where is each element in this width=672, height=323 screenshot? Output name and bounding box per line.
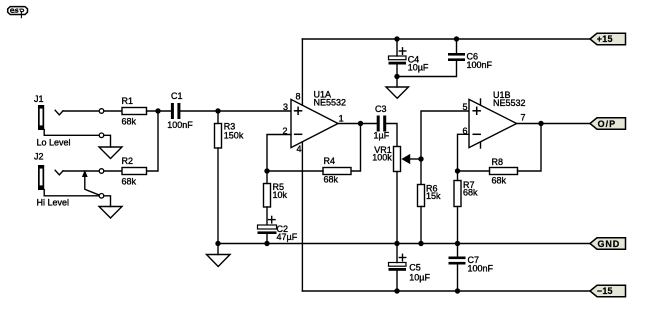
resistor R7 [454,181,461,207]
wire U1B pin6 feedback [458,134,470,171]
node C6/+15 rail junction [454,36,459,41]
resistor R6 [418,185,425,207]
wire C6 bottom to junction [397,61,457,77]
capacitor C2 plus sign [269,216,276,223]
resistor R8 [490,168,518,175]
svg-text:R1: R1 [122,96,134,106]
potentiometer VR1 [394,147,401,172]
capacitor C4 plus sign [399,48,406,55]
wire R4 to feedback junction [267,170,323,172]
svg-text:100nF: 100nF [467,60,493,70]
wire pin circle to R1 [104,110,122,112]
wire feedback junction to R8 [458,170,490,172]
node C7/-15 rail junction [455,288,460,293]
ground (supply decoupling) [386,87,409,98]
resistor R1 [122,108,147,115]
svg-text:C5: C5 [409,263,421,273]
node U1B feedback junction [455,168,460,173]
wire C7 to -15 rail [457,265,459,292]
wire R1 to C1 [147,110,172,112]
op-amp U1B [469,99,517,147]
resistor R2 [122,168,147,175]
jack J2 [38,165,44,190]
node U1A feedback junction [264,168,269,173]
capacitor C4 [389,56,407,65]
wire R5 to C2 [266,207,268,225]
svg-text:−15: −15 [597,286,613,296]
wire U1A output [338,123,377,125]
wire VR1 to GND rail [396,172,398,244]
wire GND rail to C7 [457,244,459,257]
wire J2 tip to pin circle [63,170,99,172]
svg-text:R8: R8 [492,157,504,167]
svg-text:7: 7 [521,112,526,122]
svg-text:47µF: 47µF [277,232,298,242]
svg-text:J1: J1 [34,94,44,104]
svg-text:Hi Level: Hi Level [37,197,70,207]
wire junction down to R3 [217,111,219,124]
J2 switch contact arrow [83,171,100,195]
capacitor C2 [258,225,277,234]
node C2/GND rail junction [264,241,269,246]
wire U1A pin8 to +15 rail [301,39,303,105]
wire sleeve circle to ground [104,135,111,147]
wire C1 to U1A pin3 [180,110,291,112]
wire feedback junction to R7 [457,171,459,181]
wire GND rail to C5 [396,244,398,263]
svg-text:68k: 68k [122,177,137,187]
terminal GND [590,238,626,249]
node C4/+15 rail junction [394,36,399,41]
wire U1A pin2 feedback [267,135,291,172]
capacitor C1 [171,103,181,119]
wire J1 tip to pin circle [63,110,99,112]
wire C5 to -15 rail [396,271,398,291]
J1 sleeve wire [44,130,99,136]
wire wiper junction to R6 [420,159,422,185]
ground (J1) [99,147,122,159]
U1B pin8 stub [480,99,482,105]
svg-text:C3: C3 [375,104,387,114]
node R3/GND rail junction [215,241,220,246]
capacitor C3 [377,116,387,132]
terminal +15 [590,33,626,44]
wire +15 rail to C6 [456,39,458,53]
wire R3 junction to ground symbol [217,244,219,255]
svg-text:150k: 150k [224,131,244,141]
wire feedback junction to R5 [266,171,268,184]
wire C2 to GND rail [266,234,268,244]
ground (GND rail) [207,255,231,267]
svg-text:100nF: 100nF [167,120,193,130]
J1 sleeve pin circle [99,133,104,138]
svg-text:NE5532: NE5532 [493,98,526,108]
node C5/-15 rail junction [394,288,399,293]
wire U1A pin4 to -15 rail [301,142,303,291]
svg-text:10µF: 10µF [408,62,429,72]
svg-text:1µF: 1µF [374,131,390,141]
U1B pin4 stub [480,142,482,148]
J2 tip contact [55,170,63,175]
J2 sleeve pin circle [99,194,104,199]
VR1 wiper arrow [402,155,421,164]
svg-text:68k: 68k [492,175,507,185]
svg-text:GND: GND [598,239,621,249]
terminal -15 [590,285,626,296]
wire C3 to VR1 [386,124,397,147]
op-amp U1A [291,99,338,147]
node C1/R3 junction [215,108,220,113]
svg-text:J2: J2 [34,152,44,162]
capacitor C7 [449,257,466,265]
J2 tip pin circle [99,169,104,174]
resistor R4 [323,168,351,175]
svg-text:O/P: O/P [598,119,617,129]
node C4/C6 ground junction [394,74,399,79]
wire junction down to R2 [147,111,159,171]
wire +15 rail [302,38,590,40]
U1A plus sign [295,107,302,114]
wire wiper junction to U1B pin5 [421,111,469,159]
ground (J2) [99,207,122,219]
capacitor C5 plus sign [399,254,406,260]
wire GND rail [218,243,590,245]
capacitor C5 [389,263,407,271]
wire U1B output [517,123,590,125]
node R1/C1/R2 junction [155,108,160,113]
wire R8 to output [518,124,542,172]
svg-text:8: 8 [296,91,301,101]
svg-text:10µF: 10µF [409,272,430,282]
svg-text:100nF: 100nF [468,264,494,274]
svg-text:R2: R2 [122,156,134,166]
wire R6 to GND rail [420,207,422,244]
svg-text:15k: 15k [426,191,441,201]
wire R3 down to GND rail [217,148,219,244]
svg-text:5: 5 [463,102,468,112]
resistor R3 [215,124,222,149]
wire sleeve circle to ground [104,196,111,207]
J1 tip contact [55,110,63,115]
J2 sleeve wire [44,190,99,196]
wire output junction down to R4 [351,124,361,172]
svg-text:C1: C1 [171,91,183,101]
node VR1 wiper junction [418,156,423,161]
svg-text:10k: 10k [273,190,288,200]
resistor R5 [264,184,271,208]
ESP logo [8,7,28,18]
wire +15 rail to C4 [396,39,398,56]
wire C4 to decoupling ground [396,65,398,88]
capacitor C6 [448,53,465,61]
svg-text:3: 3 [283,102,288,112]
node R6/GND rail junction [418,241,423,246]
svg-text:1: 1 [339,114,344,124]
node VR1/C5/GND rail junction [394,241,399,246]
svg-text:100k: 100k [372,152,392,162]
node U1A output junction [358,121,363,126]
svg-text:Lo Level: Lo Level [37,138,71,148]
node U1B output junction [538,121,543,126]
wire pin circle to R2 [104,170,122,172]
svg-text:NE5532: NE5532 [314,97,347,107]
svg-text:4: 4 [297,144,302,154]
U1B minus sign [473,133,480,135]
J1 tip pin circle [99,109,104,114]
svg-text:68k: 68k [463,188,478,198]
svg-text:68k: 68k [122,117,137,127]
wire R7 to GND rail [457,207,459,244]
node R7/C7/GND rail junction [455,241,460,246]
svg-text:+15: +15 [597,34,613,44]
U1B plus sign [473,107,480,114]
terminal O/P [590,118,626,129]
jack J1 [38,105,44,130]
U1A minus sign [295,133,302,135]
svg-text:68k: 68k [324,174,339,184]
wire -15 rail [302,290,590,292]
svg-text:R4: R4 [324,156,336,166]
